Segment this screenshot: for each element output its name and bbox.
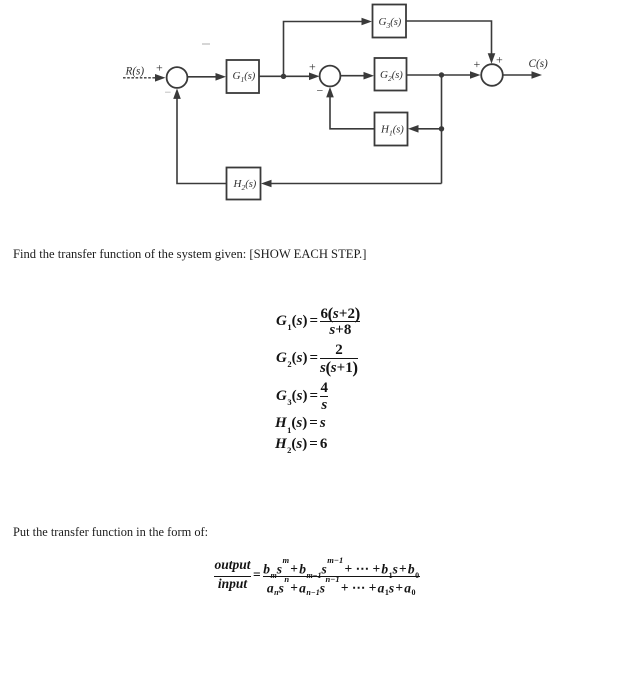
wire bottom feedback into H2	[269, 183, 442, 185]
wire branch up to G3	[284, 22, 365, 77]
equation H1	[275, 415, 326, 433]
equation G2	[276, 343, 358, 374]
equation G3	[276, 381, 328, 412]
wire H2 to summer 1 (up)	[177, 97, 227, 184]
svg-text:+: +	[474, 57, 481, 71]
wire G1 to summer 2	[259, 75, 312, 77]
block H1	[375, 113, 408, 146]
block G1	[227, 60, 260, 93]
svg-text:−: −	[165, 85, 172, 99]
svg-text:+: +	[309, 60, 316, 74]
block H2	[227, 168, 261, 200]
wire branch into H1	[416, 128, 442, 130]
block G3	[373, 5, 407, 38]
node branch after G2	[439, 72, 444, 77]
wire G2 to summer 3	[407, 74, 474, 76]
svg-text:H2(s): H2(s)	[233, 178, 257, 192]
svg-text:+: +	[496, 53, 503, 67]
stray scan mark	[202, 43, 210, 45]
wire summer1 to G1	[188, 76, 219, 78]
wire input R(s) to summer 1	[123, 77, 157, 79]
block G2	[375, 58, 407, 91]
summing junction 1	[167, 67, 188, 88]
node branch to H1	[439, 126, 444, 131]
svg-text:R(s): R(s)	[125, 66, 145, 78]
node branch after G1	[281, 74, 286, 79]
svg-text:+: +	[156, 61, 163, 75]
wire branch down from G2 output	[441, 75, 443, 184]
prompt line 2	[13, 525, 208, 540]
wire summer2 to G2	[341, 75, 367, 77]
equation G1	[276, 306, 360, 337]
svg-text:C(s): C(s)	[529, 58, 549, 70]
svg-text:−: −	[317, 84, 324, 98]
block diagram	[0, 0, 637, 225]
svg-text:G2(s): G2(s)	[380, 69, 403, 83]
svg-text:H1(s): H1(s)	[380, 124, 404, 138]
svg-text:G1(s): G1(s)	[233, 70, 256, 84]
equation H2	[275, 436, 327, 454]
wire H1 to summer 2 (up)	[330, 95, 375, 129]
wire output to C(s)	[503, 74, 534, 76]
transfer function form	[214, 561, 420, 591]
summing junction 2	[320, 66, 341, 87]
arrowhead into summer 1	[155, 74, 166, 82]
prompt line 1	[13, 247, 366, 262]
svg-text:G3(s): G3(s)	[379, 16, 402, 30]
wire G3 to summer 3 (down)	[406, 21, 492, 56]
summing junction 3	[481, 64, 503, 86]
